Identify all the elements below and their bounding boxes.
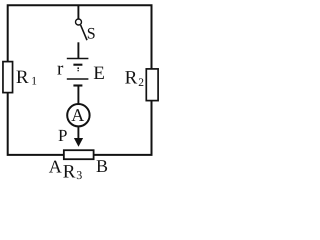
wire dashed between cells — [77, 67, 79, 71]
battery E plate 1 long — [67, 58, 89, 60]
svg-text:E: E — [93, 63, 105, 84]
svg-text:S: S — [87, 25, 96, 42]
svg-text:R: R — [63, 162, 76, 183]
svg-text:R: R — [125, 67, 138, 88]
ammeter U1 circle — [67, 104, 89, 126]
wire outer loop — [8, 5, 152, 155]
svg-text:3: 3 — [76, 168, 82, 182]
switch S circle — [76, 19, 82, 25]
arrow P shaft — [77, 127, 79, 140]
wire battery to ammeter — [77, 86, 79, 104]
svg-text:B: B — [96, 156, 108, 176]
wire switch branch top — [77, 5, 79, 18]
svg-text:1: 1 — [31, 76, 37, 88]
battery E plate 2 short — [73, 64, 82, 66]
svg-text:2: 2 — [138, 77, 144, 89]
svg-text:A: A — [71, 105, 84, 125]
battery E plate 4 short — [73, 84, 82, 86]
resistor R2 box — [146, 69, 158, 101]
switch S blade — [81, 25, 87, 40]
arrow P head — [74, 138, 83, 147]
svg-text:r: r — [57, 59, 64, 80]
svg-text:P: P — [58, 126, 67, 145]
svg-text:R: R — [16, 67, 29, 88]
wire switch to battery — [77, 42, 79, 58]
resistor R1 box — [3, 62, 13, 93]
battery E plate 3 long — [67, 78, 89, 80]
svg-text:A: A — [49, 157, 62, 177]
rheostat R3 box — [64, 150, 94, 159]
